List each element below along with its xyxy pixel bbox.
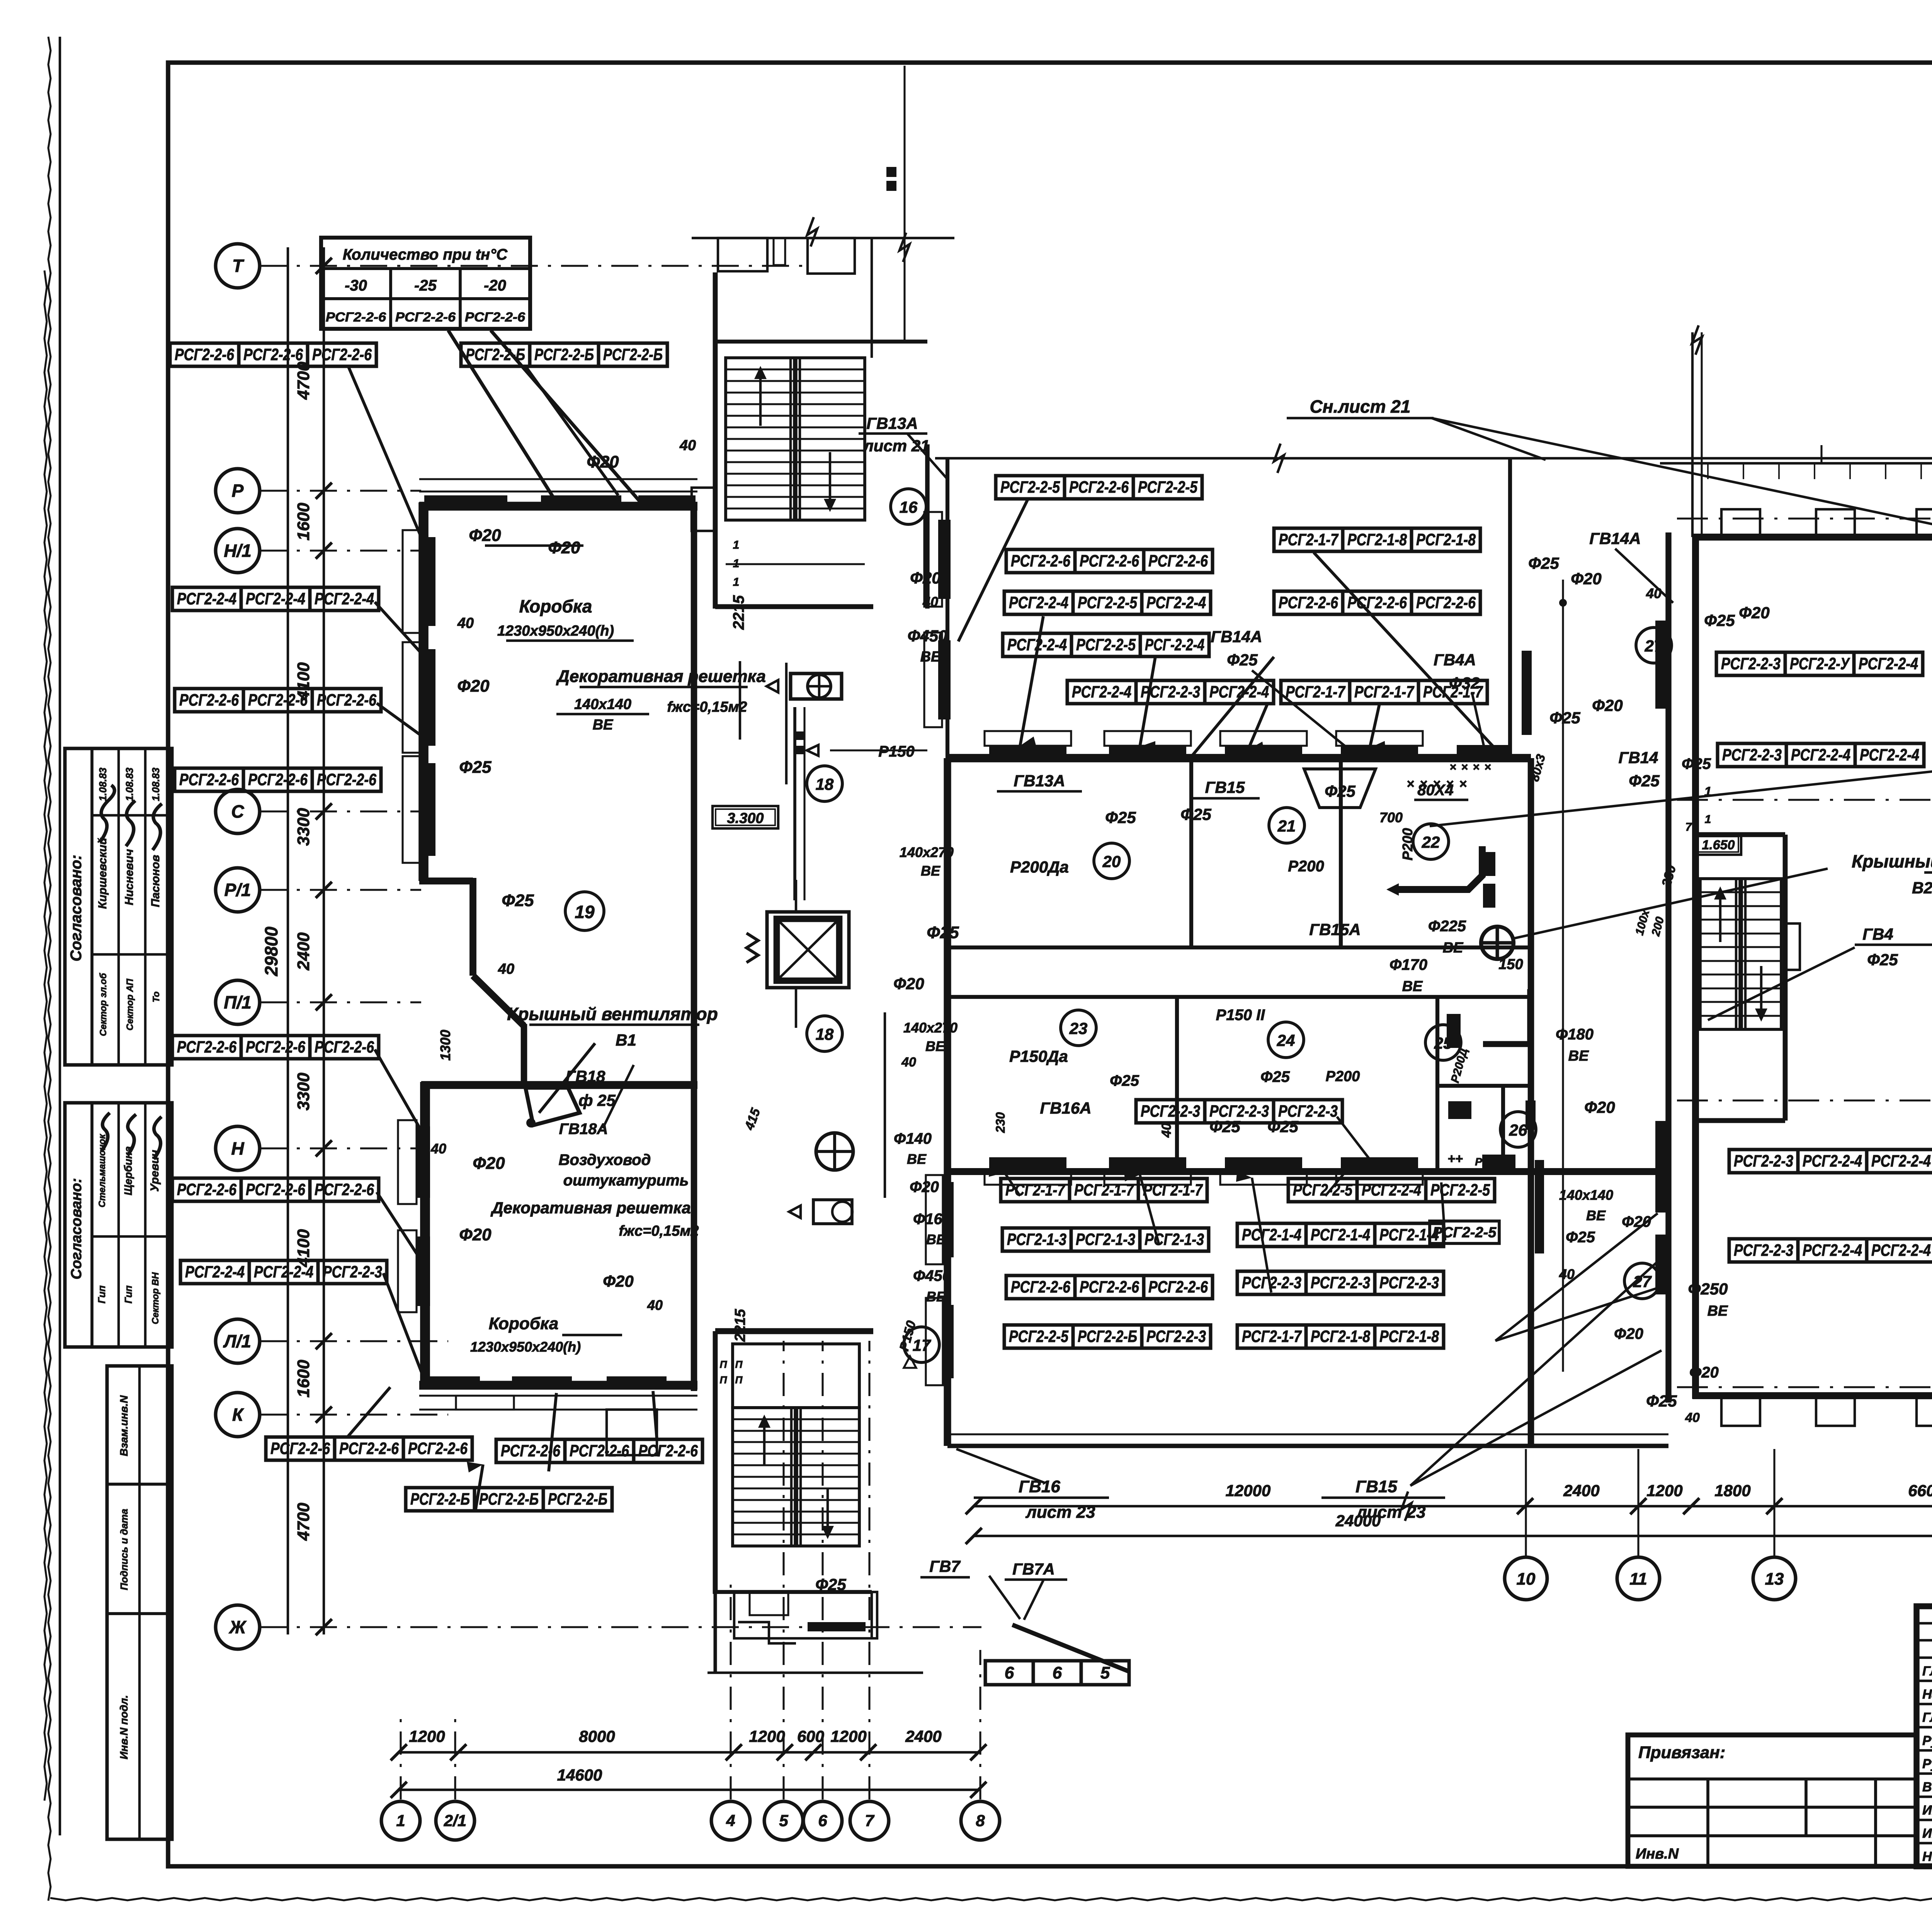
svg-text:6: 6 [1005, 1663, 1014, 1682]
svg-text:РСГ2-2-6: РСГ2-2-6 [395, 310, 456, 325]
svg-text:++: ++ [1447, 1151, 1463, 1166]
dim 415 [742, 1106, 764, 1132]
radiator label row [1718, 743, 1924, 767]
svg-text:РСГ2-2-6: РСГ2-2-6 [1080, 1278, 1139, 1296]
svg-text:2/1: 2/1 [444, 1811, 466, 1830]
svg-text:РСГ2-2-5: РСГ2-2-5 [1009, 1327, 1069, 1346]
radiator label row [1237, 1223, 1444, 1247]
leader lines [348, 330, 1932, 1671]
svg-text:РСГ2-2-4: РСГ2-2-4 [246, 590, 305, 608]
center block east walls [1510, 458, 1544, 1446]
svg-text:18: 18 [816, 775, 834, 793]
svg-text:РСГ2-1-3: РСГ2-1-3 [1145, 1230, 1204, 1249]
svg-text:Ф20: Ф20 [459, 1225, 492, 1244]
radiator label row [175, 689, 381, 712]
radiator label row [1237, 1271, 1444, 1294]
svg-text:23: 23 [1069, 1019, 1088, 1037]
radiator label row [1716, 652, 1923, 675]
svg-text:Ф25: Ф25 [815, 1575, 846, 1594]
svg-text:РСГ2-1-8: РСГ2-1-8 [1416, 531, 1476, 549]
svg-text:РСГ2-2-4: РСГ2-2-4 [1146, 594, 1206, 612]
svg-text:40: 40 [679, 437, 696, 454]
approval table upper (Согласовано) [65, 748, 172, 1065]
svg-text:РСГ2-2-6: РСГ2-2-6 [243, 345, 303, 364]
svg-text:В1: В1 [616, 1031, 636, 1049]
svg-text:РСГ2-2-Б: РСГ2-2-Б [534, 345, 594, 364]
svg-text:Ф20: Ф20 [1614, 1325, 1643, 1342]
svg-text:РСГ2-2-6: РСГ2-2-6 [315, 1038, 374, 1056]
bottom-left dimension lines [391, 1727, 986, 1798]
room circle 26 [1500, 1112, 1536, 1147]
svg-text:24: 24 [1277, 1031, 1295, 1049]
svg-text:РСГ-2-2-4: РСГ-2-2-4 [1145, 636, 1204, 654]
svg-text:1600: 1600 [294, 1360, 313, 1398]
radiator label row [1001, 1179, 1207, 1202]
svg-text:Н/1: Н/1 [224, 541, 252, 561]
radiator label row [1004, 1325, 1211, 1348]
radiator label row [172, 587, 379, 611]
svg-text:1: 1 [1705, 813, 1711, 826]
rooms 20-22 north wall [947, 731, 1531, 758]
svg-text:В2: В2 [1912, 879, 1932, 897]
room 22 plumbing [1386, 761, 1514, 959]
svg-text:140х140: 140х140 [1559, 1187, 1613, 1203]
svg-text:Ф20: Ф20 [910, 1179, 939, 1196]
handwritten annotations [430, 396, 1932, 1594]
left axis circles [216, 244, 981, 1649]
svg-text:П: П [735, 1359, 743, 1370]
svg-text:РСГ2-2-5: РСГ2-2-5 [1293, 1181, 1353, 1199]
svg-text:Инв.N подл.: Инв.N подл. [118, 1695, 130, 1759]
room 19 walls [403, 479, 697, 1026]
svg-text:РСГ2-2-4: РСГ2-2-4 [1871, 1152, 1931, 1170]
radiator label row [172, 1036, 379, 1059]
svg-text:Согласовано:: Согласовано: [68, 855, 85, 961]
svg-text:3300: 3300 [294, 1073, 313, 1111]
left dimension lines [261, 247, 324, 1634]
svg-text:РСГ2-2-6: РСГ2-2-6 [246, 1180, 306, 1199]
svg-text:40: 40 [901, 1055, 916, 1070]
room circle 17 [904, 1327, 939, 1362]
svg-text:Декоративная решетка: Декоративная решетка [556, 667, 766, 686]
svg-text:РСГ2-2-5: РСГ2-2-5 [1000, 478, 1060, 497]
svg-text:С: С [231, 801, 244, 821]
svg-text:16: 16 [900, 498, 918, 516]
svg-text:Коробка: Коробка [489, 1314, 559, 1333]
svg-text:3300: 3300 [294, 808, 313, 846]
svg-text:РСГ2-2-4: РСГ2-2-4 [1791, 746, 1850, 764]
rooms 25-26 fixtures [1447, 989, 1536, 1170]
svg-text:РСГ2-2-6: РСГ2-2-6 [248, 770, 308, 789]
radiator label row [172, 1178, 379, 1201]
svg-text:ГВ14А: ГВ14А [1589, 529, 1641, 548]
room circle 20 [1094, 843, 1129, 879]
svg-text:8000: 8000 [579, 1727, 615, 1745]
svg-text:Ф25: Ф25 [1566, 1229, 1595, 1246]
svg-text:РСГ2-2-Б: РСГ2-2-Б [479, 1490, 539, 1509]
paper edge bottom [50, 1898, 1932, 1900]
svg-text:10: 10 [1517, 1570, 1536, 1588]
svg-text:Ф25: Ф25 [1528, 554, 1559, 572]
svg-text:Согласовано:: Согласовано: [68, 1178, 85, 1279]
interior partitions [951, 761, 1531, 1171]
svg-text:Сектор зл.об: Сектор зл.об [98, 973, 109, 1036]
svg-text:×: × [1459, 777, 1467, 791]
room circle 27 [1636, 628, 1672, 663]
svg-text:14600: 14600 [557, 1766, 602, 1784]
svg-text:РСГ2-2-6: РСГ2-2-6 [1148, 552, 1208, 570]
svg-text:РСГ2-2-4: РСГ2-2-4 [177, 590, 236, 608]
svg-text:Р: Р [232, 481, 244, 501]
svg-text:Ф450: Ф450 [913, 1267, 951, 1284]
svg-text:Инв.N: Инв.N [1636, 1846, 1679, 1862]
svg-text:РСГ2-2-3: РСГ2-2-3 [1379, 1274, 1439, 1292]
svg-text:РСГ2-2-4: РСГ2-2-4 [1860, 746, 1919, 764]
svg-text:Ф25: Ф25 [1629, 772, 1660, 790]
svg-text:РСГ2-2-4: РСГ2-2-4 [1803, 1152, 1862, 1170]
svg-text:600: 600 [797, 1727, 824, 1745]
svg-text:6600: 6600 [1908, 1481, 1932, 1500]
svg-text:РСГ2-1-7: РСГ2-1-7 [1242, 1327, 1302, 1346]
svg-text:ГВ13А: ГВ13А [1014, 772, 1065, 790]
svg-text:29800: 29800 [261, 927, 281, 976]
svg-text:РСГ2-1-4: РСГ2-1-4 [1311, 1226, 1370, 1244]
svg-text:Привязан:: Привязан: [1638, 1743, 1725, 1762]
svg-text:Ф160: Ф160 [913, 1211, 951, 1228]
svg-text:ГВ15А: ГВ15А [1309, 920, 1361, 939]
svg-text:К: К [232, 1405, 244, 1425]
svg-text:ГВ7: ГВ7 [929, 1557, 961, 1575]
svg-text:РСГ2-1-7: РСГ2-1-7 [1286, 683, 1346, 701]
svg-text:РСГ2-2-6: РСГ2-2-6 [408, 1439, 468, 1458]
svg-text:РСГ2-2-5: РСГ2-2-5 [1433, 1225, 1497, 1241]
svg-text:1200: 1200 [409, 1727, 445, 1745]
svg-text:РСГ2-2-Б: РСГ2-2-Б [410, 1490, 470, 1509]
svg-text:РСГ2-2-4: РСГ2-2-4 [185, 1263, 245, 1281]
svg-text:РСГ2-1-4: РСГ2-1-4 [1242, 1226, 1301, 1244]
room 18 upper [740, 661, 927, 900]
svg-text:РСГ2-2-6: РСГ2-2-6 [248, 691, 308, 709]
svg-text:Ж: Ж [229, 1617, 247, 1637]
radiator label row [1067, 680, 1274, 704]
svg-text:2400: 2400 [1563, 1481, 1599, 1500]
svg-text:П: П [735, 1374, 743, 1386]
svg-text:7: 7 [865, 1811, 874, 1830]
svg-text:РСГ2-2-6: РСГ2-2-6 [1347, 594, 1407, 612]
center block west wall [926, 758, 954, 1446]
svg-text:РСГ2-2-4: РСГ2-2-4 [1871, 1241, 1931, 1260]
svg-text:Гл.сант.: Гл.сант. [1922, 1664, 1932, 1679]
lower-left room walls [398, 1022, 697, 1455]
svg-text:140х140: 140х140 [574, 696, 631, 713]
svg-text:РСГ2-2-5: РСГ2-2-5 [1138, 478, 1198, 497]
svg-text:ГВ4А: ГВ4А [1434, 651, 1476, 669]
svg-text:17: 17 [913, 1336, 931, 1354]
svg-text:Сектор АП: Сектор АП [125, 978, 135, 1031]
svg-text:230: 230 [993, 1112, 1007, 1133]
svg-text:1230х950х240(h): 1230х950х240(h) [470, 1339, 581, 1355]
svg-text:П: П [720, 1359, 728, 1370]
svg-text:Ф25: Ф25 [1867, 951, 1898, 969]
section cut line top [935, 444, 1932, 473]
svg-text:РСГ2-2-4: РСГ2-2-4 [254, 1263, 313, 1281]
svg-text:РСГ2-2-4: РСГ2-2-4 [1072, 683, 1131, 701]
svg-text:40: 40 [922, 594, 938, 610]
svg-text:Ф170: Ф170 [1389, 956, 1427, 973]
svg-text:-30: -30 [345, 277, 367, 294]
svg-text:РСГ2-1-7: РСГ2-1-7 [1279, 531, 1339, 549]
svg-text:3.300: 3.300 [727, 810, 764, 827]
radiator label row [180, 1260, 387, 1284]
svg-text:40: 40 [647, 1297, 663, 1313]
single label РСГ2-2-5 [1430, 1221, 1499, 1243]
svg-text:Декоративная решетка: Декоративная решетка [490, 1199, 690, 1217]
svg-text:Ф20: Ф20 [893, 975, 924, 993]
svg-text:26: 26 [1509, 1121, 1527, 1139]
svg-text:Ф25: Ф25 [1267, 1117, 1298, 1136]
radiator label row [1136, 1100, 1342, 1123]
svg-text:РСГ2-2-3: РСГ2-2-3 [1722, 746, 1782, 764]
radiator label row [1006, 549, 1213, 573]
svg-text:ГВ15: ГВ15 [1355, 1477, 1397, 1496]
svg-text:20: 20 [1102, 852, 1121, 871]
svg-text:РСГ2-2-3: РСГ2-2-3 [1734, 1152, 1793, 1170]
svg-text:4700: 4700 [294, 1503, 313, 1541]
svg-text:ВЕ: ВЕ [1443, 940, 1464, 956]
svg-text:Ф225: Ф225 [1428, 918, 1466, 935]
svg-text:Ф20: Ф20 [603, 1272, 634, 1290]
svg-text:лист 23: лист 23 [1355, 1503, 1425, 1522]
svg-text:РСГ2-2-6: РСГ2-2-6 [317, 770, 377, 789]
svg-text:Ф25: Ф25 [927, 923, 959, 942]
paper edge left [44, 37, 51, 1901]
room 19 circle [565, 892, 604, 930]
svg-text:РСГ2-2-6: РСГ2-2-6 [317, 691, 377, 709]
svg-text:Ф140: Ф140 [894, 1130, 932, 1147]
svg-text:П: П [720, 1374, 728, 1386]
elevator shaft [747, 880, 849, 1028]
svg-text:Ф25: Ф25 [502, 891, 534, 910]
svg-text:2215: 2215 [732, 1309, 748, 1342]
svg-text:1200: 1200 [830, 1727, 866, 1745]
radiator label row [175, 768, 381, 791]
radiator label row [496, 1439, 702, 1463]
svg-text:То: То [151, 992, 162, 1002]
svg-text:РСГ2-2-4: РСГ2-2-4 [1859, 655, 1918, 673]
svg-text:40: 40 [1159, 1123, 1174, 1138]
svg-text:Сектор ВН: Сектор ВН [150, 1272, 161, 1324]
svg-text:-25: -25 [414, 277, 437, 294]
svg-text:Ф20: Ф20 [1571, 570, 1602, 588]
svg-text:ГВ14А: ГВ14А [1211, 628, 1262, 646]
radiator label row [1281, 680, 1487, 704]
svg-text:Р150: Р150 [1475, 1156, 1500, 1168]
svg-text:Коробка: Коробка [519, 596, 592, 616]
svg-text:РСГ2-2-3: РСГ2-2-3 [323, 1263, 382, 1281]
room circle 22 [1413, 824, 1449, 859]
svg-text:150: 150 [1498, 956, 1523, 973]
svg-text:Ф20: Ф20 [469, 526, 501, 545]
svg-text:РСГ2-2-6: РСГ2-2-6 [312, 345, 372, 364]
svg-text:Нач.СТО: Нач.СТО [1922, 1687, 1932, 1702]
top stair landing [692, 167, 896, 588]
svg-text:Р200Да: Р200Да [1010, 858, 1069, 876]
svg-text:40: 40 [498, 961, 514, 977]
svg-text:РСГ2-2-6: РСГ2-2-6 [177, 1180, 237, 1199]
level mark 3.300 [713, 806, 778, 828]
svg-text:140х270: 140х270 [903, 1020, 957, 1036]
cut lines above wing [1660, 192, 1932, 537]
svg-text:Л/1: Л/1 [223, 1331, 251, 1351]
svg-text:Ф20: Ф20 [587, 452, 619, 471]
svg-text:Ф450: Ф450 [908, 627, 947, 645]
svg-text:РСГ2-2-6: РСГ2-2-6 [179, 770, 239, 789]
level mark 1.650 [1696, 813, 1741, 855]
svg-text:×: × [1461, 761, 1468, 774]
radiator label row [1274, 591, 1480, 614]
svg-text:ВЕ: ВЕ [925, 1038, 945, 1054]
svg-text:Сн.лист 21: Сн.лист 21 [1310, 396, 1411, 417]
svg-text:2400: 2400 [905, 1727, 941, 1745]
svg-text:РСГ2-2-5: РСГ2-2-5 [1430, 1181, 1490, 1199]
svg-text:Р150: Р150 [878, 743, 914, 760]
inventory strip table [107, 1366, 172, 1839]
svg-text:13: 13 [1765, 1570, 1784, 1588]
dim 2215 bottom [732, 1309, 748, 1342]
room circle 25 [1425, 1025, 1461, 1060]
svg-text:Пасюнов: Пасюнов [149, 855, 162, 907]
radiator label row [170, 343, 376, 366]
svg-text:Ф20: Ф20 [1584, 1098, 1615, 1116]
svg-text:2400: 2400 [294, 932, 313, 971]
svg-text:ВЕ: ВЕ [1586, 1207, 1606, 1223]
svg-text:РСГ2-2-3: РСГ2-2-3 [1146, 1327, 1206, 1346]
svg-text:ВЕ: ВЕ [926, 1231, 946, 1247]
svg-text:ВЕ: ВЕ [1568, 1048, 1589, 1064]
svg-text:РСГ2-2-6: РСГ2-2-6 [1279, 594, 1338, 612]
radiator label row [1004, 591, 1211, 614]
svg-text:5: 5 [1100, 1663, 1110, 1682]
radiator label row [266, 1437, 472, 1460]
room circle 21 [1269, 808, 1304, 843]
svg-text:ф 25: ф 25 [578, 1091, 616, 1109]
svg-text:РСГ2-2-6: РСГ2-2-6 [326, 310, 386, 325]
svg-text:Р200: Р200 [1326, 1068, 1360, 1085]
svg-text:Ф25: Ф25 [1227, 651, 1258, 669]
bottom stair room outline [715, 1331, 873, 1594]
svg-text:РСГ2-1-3: РСГ2-1-3 [1076, 1230, 1135, 1249]
svg-text:4: 4 [726, 1811, 735, 1830]
svg-text:Рук.сек.ОВ: Рук.сек.ОВ [1922, 1733, 1932, 1748]
title block [1917, 1606, 1932, 1866]
svg-text:РСГ2-2-6: РСГ2-2-6 [1080, 552, 1139, 570]
svg-text:Ф25: Ф25 [1110, 1072, 1139, 1089]
svg-text:РСГ2-1-7: РСГ2-1-7 [1074, 1181, 1134, 1199]
svg-text:1: 1 [396, 1811, 405, 1830]
radiator label row [1237, 1325, 1444, 1348]
svg-text:РСГ2-2-6: РСГ2-2-6 [270, 1439, 330, 1458]
svg-text:РСГ2-1-7: РСГ2-1-7 [1005, 1181, 1066, 1199]
svg-text:РСГ2-1-8: РСГ2-1-8 [1379, 1327, 1439, 1346]
fixture ГВ18 [526, 1088, 580, 1128]
svg-text:РСГ2-2-6: РСГ2-2-6 [246, 1038, 306, 1056]
svg-text:Ф25: Ф25 [1260, 1068, 1290, 1085]
bottom axis circles 1-8 [381, 1341, 1000, 1840]
svg-text:Ф25: Ф25 [1325, 782, 1355, 800]
radiator label row [1288, 1179, 1495, 1202]
hall 27 west wall [1559, 532, 1668, 1403]
bottom stair flight [733, 1344, 859, 1546]
label row 665 [985, 1661, 1129, 1685]
svg-text:ГВ15: ГВ15 [1205, 778, 1245, 796]
svg-text:РСГ2-2-3: РСГ2-2-3 [1721, 655, 1781, 673]
svg-text:27: 27 [1645, 637, 1663, 655]
svg-text:Крышный вентилятор: Крышный вентилятор [507, 1004, 718, 1024]
radiator label row [1006, 1276, 1213, 1299]
svg-text:1: 1 [733, 576, 740, 588]
svg-text:Нисневич: Нисневич [123, 849, 136, 905]
svg-text:РСГ2-2-3: РСГ2-2-3 [1734, 1241, 1793, 1260]
svg-text:-20: -20 [484, 277, 506, 294]
svg-text:1: 1 [733, 539, 740, 551]
svg-text:8: 8 [976, 1811, 985, 1830]
svg-text:×: × [1484, 761, 1491, 774]
svg-text:Т: Т [232, 256, 245, 276]
svg-text:ГВ4: ГВ4 [1862, 925, 1893, 943]
svg-text:Взам.инв.N: Взам.инв.N [118, 1395, 130, 1456]
svg-text:1.08.83: 1.08.83 [97, 767, 109, 801]
svg-text:700: 700 [1379, 810, 1403, 825]
svg-text:ГВ14: ГВ14 [1619, 748, 1658, 767]
svg-text:×: × [1449, 761, 1456, 774]
svg-text:ВЕ: ВЕ [1402, 978, 1423, 995]
svg-text:Н.контр.: Н.контр. [1922, 1849, 1932, 1864]
svg-text:1.650: 1.650 [1702, 838, 1735, 852]
svg-text:Рук.груп.: Рук.груп. [1922, 1757, 1932, 1771]
svg-text:×: × [1406, 777, 1414, 791]
svg-text:лист 23: лист 23 [1025, 1503, 1095, 1522]
svg-text:×: × [1473, 761, 1480, 774]
svg-text:РСГ2-2-3: РСГ2-2-3 [1141, 1102, 1200, 1121]
svg-text:Ф25: Ф25 [1209, 1117, 1240, 1136]
svg-text:19: 19 [575, 902, 595, 922]
svg-text:РСГ2-2-6: РСГ2-2-6 [175, 345, 235, 364]
svg-text:П/1: П/1 [224, 992, 251, 1012]
radiator label row [461, 343, 667, 366]
svg-text:Р/1: Р/1 [224, 880, 251, 900]
svg-text:ГВ16А: ГВ16А [1040, 1099, 1091, 1117]
svg-text:Н: Н [231, 1138, 244, 1158]
svg-text:РСГ2-2-6: РСГ2-2-6 [638, 1442, 698, 1460]
svg-text:1200: 1200 [749, 1727, 785, 1745]
svg-text:РСГ2-2-4: РСГ2-2-4 [1362, 1181, 1421, 1199]
wing stair flight [1700, 879, 1781, 1029]
top stair room outline [692, 66, 954, 609]
room circle 27 [1624, 1263, 1660, 1299]
svg-text:РСГ2-1-7: РСГ2-1-7 [1354, 683, 1415, 701]
radiator label row [1729, 1239, 1932, 1262]
svg-text:РСГ2-2-6: РСГ2-2-6 [570, 1442, 629, 1460]
svg-text:7: 7 [1685, 821, 1692, 833]
svg-text:40: 40 [430, 1141, 446, 1156]
svg-text:Вед.инж.: Вед.инж. [1922, 1780, 1932, 1794]
svg-text:Ф32: Ф32 [1449, 674, 1480, 692]
quantity table [321, 238, 530, 329]
svg-text:Ф20: Ф20 [910, 569, 941, 587]
svg-text:Ф20: Ф20 [1689, 1364, 1719, 1381]
svg-text:Ф20: Ф20 [548, 538, 580, 557]
svg-text:РСГ2-2-6: РСГ2-2-6 [1069, 478, 1129, 497]
